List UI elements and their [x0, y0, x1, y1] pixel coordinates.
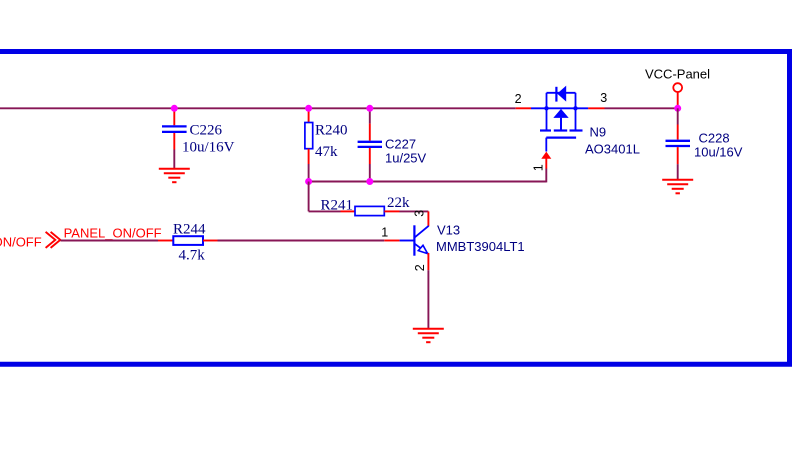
svg-text:1: 1 — [531, 164, 545, 171]
N9 pin dot left — [544, 106, 548, 110]
label C227 value — [385, 137, 427, 166]
svg-text:2: 2 — [413, 264, 427, 271]
power port VCC-Panel — [645, 66, 710, 108]
svg-text:V13: V13 — [437, 222, 460, 237]
N9 gate pin 1 red arrow — [541, 152, 551, 169]
junction dot C227/rail1 — [366, 105, 373, 112]
ground for C228 — [662, 180, 693, 194]
N9 pin dot right — [573, 106, 577, 110]
svg-text:R241: R241 — [321, 198, 354, 214]
label N9 — [585, 125, 640, 157]
resistor R244 — [158, 236, 218, 245]
resistor R241 — [341, 206, 429, 215]
svg-text:MMBT3904LT1: MMBT3904LT1 — [436, 239, 525, 254]
wire pin 3 of N9 (red) — [588, 107, 604, 109]
svg-text:2: 2 — [515, 92, 522, 106]
wire R244 to V13 base — [218, 240, 385, 242]
wire rail2 y=181.5 R240 to N9 gate — [309, 169, 547, 183]
ground for C226 — [159, 169, 190, 182]
capacitor C227 — [358, 108, 382, 181]
wire V13 collector pin (red) — [427, 211, 429, 226]
svg-text:3: 3 — [413, 210, 427, 217]
svg-text:C228: C228 — [699, 131, 730, 146]
svg-text:10u/16V: 10u/16V — [694, 144, 743, 159]
svg-text:4.7k: 4.7k — [179, 248, 206, 264]
svg-text:1: 1 — [381, 226, 388, 240]
junction dot C227/rail2 — [366, 178, 373, 185]
transistor V13 — [414, 225, 428, 255]
wire pin 2 of N9 (red) — [516, 107, 531, 109]
mosfet N9 AO3401L — [531, 86, 588, 152]
junction dot R240/rail1 — [305, 105, 312, 112]
wire V13 emitter to ground — [427, 253, 429, 329]
svg-text:AO3401L: AO3401L — [585, 142, 640, 157]
junction dot C226/rail — [171, 105, 178, 112]
svg-text:22k: 22k — [387, 195, 410, 211]
resistor R240 — [305, 108, 313, 181]
svg-text:3: 3 — [600, 91, 607, 105]
svg-text:10u/16V: 10u/16V — [182, 140, 235, 156]
capacitor C226 — [162, 108, 187, 169]
wire base net y=240.5 — [61, 240, 159, 242]
label R241 value — [321, 195, 411, 214]
svg-text:R240: R240 — [315, 123, 348, 139]
junction dot VCC-Panel/rail — [674, 105, 681, 112]
svg-text:PANEL_ON/OFF: PANEL_ON/OFF — [0, 235, 42, 250]
svg-text:VCC-Panel: VCC-Panel — [645, 66, 710, 81]
svg-text:47k: 47k — [315, 144, 338, 160]
label R240 value — [315, 123, 348, 161]
wire V13 base pin (red) — [384, 240, 399, 242]
svg-text:1u/25V: 1u/25V — [385, 150, 427, 165]
wire V13 base lead (blue) — [400, 240, 416, 242]
off-page connector PANEL_ON/OFF — [0, 232, 60, 250]
ground for V13 emitter — [413, 329, 444, 342]
capacitor C228 — [666, 108, 691, 180]
svg-text:R244: R244 — [173, 222, 206, 238]
svg-text:C226: C226 — [190, 123, 223, 139]
junction dot R240/rail2 — [305, 178, 312, 185]
wire rail from N9 to VCC-Panel — [605, 107, 678, 109]
svg-text:PANEL_ON/OFF: PANEL_ON/OFF — [64, 225, 162, 240]
label C228 value — [694, 131, 743, 160]
wire main rail net VCC input y=108.3 — [0, 107, 516, 109]
label R244 value — [173, 222, 206, 264]
svg-text:N9: N9 — [590, 125, 607, 140]
wire rail2 drop to R241 — [309, 182, 341, 212]
label V13 — [436, 222, 525, 254]
border frame — [0, 52, 790, 365]
label C226 value — [182, 123, 235, 156]
